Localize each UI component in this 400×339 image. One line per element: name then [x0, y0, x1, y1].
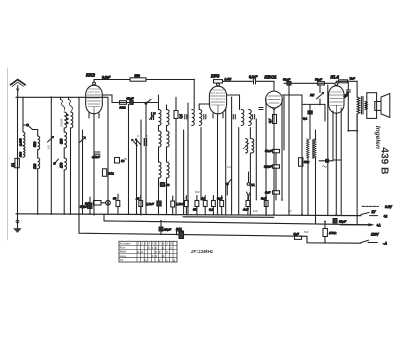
svg-text:8nF: 8nF	[195, 190, 200, 194]
wire	[107, 97, 109, 214]
svg-text:600: 600	[60, 138, 64, 144]
bandfilter BF3	[241, 110, 251, 126]
svg-text:RG1: RG1	[120, 106, 127, 110]
wire	[275, 153, 277, 165]
wire	[315, 158, 317, 224]
wire	[347, 81, 349, 90]
resistor R13	[115, 158, 125, 164]
wire	[200, 128, 202, 201]
wire mid segment	[183, 216, 274, 219]
wire	[255, 119, 257, 200]
svg-text:RA1: RA1	[108, 172, 114, 176]
wire	[275, 168, 277, 191]
table band switch	[119, 241, 177, 262]
svg-text:500: 500	[33, 141, 37, 147]
svg-text:500: 500	[19, 152, 23, 157]
wire	[103, 214, 105, 221]
wire anode row	[112, 102, 157, 104]
svg-text:50µF: 50µF	[127, 97, 134, 101]
capacitor C23	[261, 196, 268, 216]
wire	[187, 103, 189, 215]
bus B1	[16, 214, 361, 216]
wire	[249, 153, 251, 215]
bandfilter BF1c	[158, 162, 169, 178]
svg-text:5nF: 5nF	[304, 230, 309, 234]
svg-text:x: x	[166, 258, 168, 262]
wire AF line	[284, 82, 334, 84]
svg-text:TA: TA	[120, 258, 123, 262]
wire grid KF3	[199, 104, 210, 110]
svg-text:6-2V: 6-2V	[385, 205, 393, 209]
svg-text:170: 170	[60, 162, 64, 168]
svg-text:7nF: 7nF	[350, 77, 355, 81]
resistor R8	[299, 158, 310, 167]
svg-text:x: x	[159, 258, 161, 262]
wire	[70, 128, 72, 215]
resistor RA1	[176, 227, 184, 235]
svg-text:o: o	[162, 254, 164, 258]
wire	[327, 85, 329, 215]
wire	[238, 128, 240, 215]
svg-text:o: o	[145, 258, 147, 262]
switch S4	[361, 210, 387, 218]
KF3 pin stubs	[213, 113, 223, 118]
svg-text:0,1µF: 0,1µF	[80, 205, 88, 209]
choke L5	[307, 139, 317, 159]
tube KL4	[329, 83, 344, 114]
switch S2	[54, 159, 59, 165]
svg-text:0,1: 0,1	[209, 208, 214, 212]
svg-text:ZF=128kHz: ZF=128kHz	[190, 249, 214, 254]
KK2 pin stubs	[89, 113, 99, 119]
tube KF3	[209, 83, 226, 114]
wire	[166, 178, 168, 214]
wire	[223, 80, 253, 82]
antenna coil L1	[64, 112, 73, 128]
wire	[136, 139, 138, 214]
wire	[225, 108, 227, 215]
capacitor C28	[294, 232, 302, 239]
wire	[273, 108, 275, 215]
wire	[288, 86, 290, 215]
misc labels	[47, 118, 309, 234]
wire	[309, 114, 311, 139]
capacitor C5	[204, 115, 206, 120]
bus B3	[79, 214, 361, 243]
svg-text:0,5: 0,5	[288, 209, 292, 213]
svg-text:KK2: KK2	[86, 73, 95, 78]
trimmer arrow C1	[48, 136, 54, 142]
svg-text:4nF: 4nF	[243, 208, 248, 212]
wire	[78, 97, 80, 214]
svg-text:Lang: Lang	[120, 254, 126, 258]
svg-text:0,050: 0,050	[19, 138, 23, 146]
wire	[158, 147, 160, 162]
bus B2	[104, 221, 372, 225]
capacitor 50uF blob	[127, 97, 134, 105]
svg-text:50µF: 50µF	[283, 78, 290, 82]
svg-text:0,1µF: 0,1µF	[264, 165, 272, 169]
wire	[265, 99, 267, 215]
svg-text:0,0250: 0,0250	[60, 118, 64, 127]
svg-text:x: x	[155, 254, 157, 258]
svg-text:0,1: 0,1	[179, 114, 183, 119]
antenna	[11, 80, 26, 98]
wire	[283, 95, 285, 150]
svg-text:x: x	[148, 246, 150, 250]
wire	[37, 130, 39, 137]
bandfilter BF1b	[158, 131, 169, 147]
wire	[324, 237, 326, 243]
resistor RA2 and dial lamp	[85, 200, 110, 205]
wire	[145, 103, 147, 214]
capacitor C4	[185, 115, 187, 120]
wire	[37, 150, 39, 158]
coil 120	[33, 158, 40, 169]
svg-text:120: 120	[33, 163, 37, 169]
wire	[158, 95, 160, 110]
wire antenna lead down	[17, 97, 19, 214]
bandfilter BF1a	[158, 110, 169, 126]
svg-text:o: o	[137, 250, 139, 254]
capacitor C20	[209, 201, 215, 212]
svg-text:Mittel: Mittel	[120, 250, 127, 254]
page scan edge	[7, 68, 9, 240]
svg-text:4,5nF: 4,5nF	[92, 155, 100, 159]
capacitor C15	[113, 194, 120, 215]
wire	[256, 81, 275, 91]
svg-text:50: 50	[124, 157, 127, 161]
wire	[175, 97, 177, 110]
svg-text:x: x	[159, 250, 161, 254]
wire	[347, 92, 349, 131]
svg-text:500: 500	[135, 74, 141, 78]
resistor R4 above KF3	[214, 77, 232, 83]
svg-text:KBC1: KBC1	[265, 75, 278, 80]
wire	[319, 99, 321, 105]
capacitor C16	[135, 196, 143, 215]
svg-text:0,7: 0,7	[268, 118, 272, 123]
svg-text:Kurz: Kurz	[120, 246, 126, 250]
svg-text:Ingelen: Ingelen	[374, 126, 381, 149]
capacitor C24	[265, 149, 280, 153]
capacitor C7	[233, 115, 235, 120]
wire	[301, 103, 303, 215]
svg-text:TA: TA	[251, 183, 255, 187]
tube KK2	[86, 82, 103, 114]
capacitor C21	[217, 197, 224, 207]
wire	[183, 130, 185, 215]
terminal row 1	[362, 205, 393, 209]
svg-text:Kontakte: Kontakte	[120, 242, 131, 246]
wire	[166, 105, 168, 110]
resistor RG1	[120, 101, 127, 110]
capacitor C29	[179, 232, 184, 239]
wire	[356, 114, 358, 225]
svg-text:–A: –A	[382, 241, 387, 245]
wire	[63, 148, 65, 158]
svg-text:CA: CA	[227, 165, 231, 169]
wire	[63, 128, 65, 132]
wire	[128, 104, 130, 214]
svg-text:50k: 50k	[304, 160, 309, 164]
wire	[158, 178, 160, 214]
svg-text:5nF: 5nF	[261, 197, 266, 201]
wire	[175, 119, 177, 215]
coil lead squiggle	[69, 100, 73, 112]
wire	[281, 100, 283, 200]
coil L4	[243, 139, 254, 153]
svg-text:5nF: 5nF	[265, 191, 270, 195]
svg-text:1,1M: 1,1M	[225, 77, 232, 81]
svg-text:+2: +2	[384, 214, 388, 218]
capacitor C8	[253, 115, 255, 120]
svg-text:o: o	[173, 258, 175, 262]
wire	[348, 130, 357, 132]
svg-text:o: o	[170, 246, 172, 250]
switch S6	[226, 179, 232, 195]
svg-text:50nF: 50nF	[315, 78, 322, 82]
svg-text:1,5nF: 1,5nF	[146, 202, 154, 206]
ground	[14, 215, 21, 233]
resistor R9	[323, 229, 337, 237]
wire	[68, 97, 70, 99]
svg-text:50: 50	[166, 183, 170, 187]
capacitor C26	[265, 191, 280, 195]
svg-text:50: 50	[193, 208, 197, 212]
svg-text:1A: 1A	[11, 163, 15, 167]
wire	[319, 85, 321, 93]
wire	[50, 97, 52, 214]
wire	[82, 130, 84, 214]
wire	[356, 114, 358, 131]
wire	[319, 160, 333, 162]
bandfilter BF2	[192, 110, 202, 126]
wire	[324, 221, 326, 229]
capacitor C32	[160, 183, 169, 188]
wire KL4 cathode	[335, 113, 337, 215]
wire KL4 left pin	[333, 111, 341, 160]
pickup TA	[247, 172, 255, 200]
capacitor C13 20uF	[159, 221, 171, 235]
wire cap stems	[186, 196, 221, 215]
svg-text:120V: 120V	[371, 233, 379, 237]
svg-text:1M: 1M	[310, 93, 315, 97]
wire	[158, 126, 160, 132]
wire	[336, 81, 357, 82]
svg-text:x: x	[166, 250, 168, 254]
switch S5	[361, 240, 387, 245]
svg-text:KL4: KL4	[331, 75, 340, 80]
svg-text:0,1µF: 0,1µF	[249, 75, 258, 79]
wire	[166, 126, 168, 132]
svg-text:20µF: 20µF	[163, 228, 171, 232]
trimmer C3	[132, 139, 147, 146]
svg-text:x: x	[162, 246, 164, 250]
capacitor C25	[264, 165, 280, 169]
capacitor C18	[193, 201, 199, 212]
speaker LS	[367, 93, 390, 119]
wire	[340, 108, 342, 215]
capacitor C10	[283, 78, 291, 86]
resistor 500 input	[33, 136, 40, 150]
coil L3 170	[60, 158, 67, 170]
svg-text:o: o	[141, 250, 143, 254]
resistor R7 above KL4	[339, 77, 355, 83]
wire	[23, 124, 28, 126]
wire KF3 cathode	[217, 114, 219, 215]
resistor R3	[174, 111, 183, 119]
wire	[37, 169, 39, 215]
svg-text:170Ω: 170Ω	[329, 231, 337, 235]
wire	[315, 130, 317, 139]
wire	[249, 128, 251, 139]
capacitor C9	[259, 108, 263, 110]
svg-text:1,5nF: 1,5nF	[176, 202, 184, 206]
resistor R10	[171, 196, 175, 215]
potentiometer P1	[310, 92, 324, 99]
terminal row 3	[340, 224, 381, 228]
resistor R5	[268, 115, 277, 124]
svg-text:2k: 2k	[135, 197, 140, 201]
wire grid cap to resistor	[94, 80, 130, 83]
svg-text:+A: +A	[377, 224, 381, 228]
svg-text:50: 50	[113, 197, 117, 201]
resistor R2 500 horizontal	[130, 74, 146, 81]
wire	[60, 97, 62, 99]
wire	[63, 170, 65, 215]
wire	[22, 97, 24, 132]
capacitor C22	[243, 196, 250, 216]
wire	[146, 80, 194, 110]
svg-text:KF3: KF3	[211, 74, 220, 79]
switch S3	[145, 99, 151, 104]
resistor R1 1A	[11, 158, 19, 167]
svg-text:0,1: 0,1	[303, 117, 308, 121]
svg-text:x: x	[152, 254, 154, 258]
capacitor C6	[249, 75, 258, 84]
svg-text:5nF: 5nF	[294, 232, 299, 236]
wire	[140, 120, 142, 215]
wire	[157, 102, 159, 104]
svg-text:439 B: 439 B	[379, 147, 390, 174]
svg-text:6,0: 6,0	[47, 145, 51, 149]
wire	[324, 104, 326, 121]
resistor R11	[19, 132, 25, 146]
coil L2 600	[60, 132, 67, 148]
tube KBC1	[266, 91, 283, 110]
capacitor C34 bead	[323, 159, 329, 167]
svg-text:RA1: RA1	[176, 227, 182, 231]
wire	[356, 81, 358, 97]
svg-text:50nF: 50nF	[265, 149, 272, 153]
svg-text:0,1µF: 0,1µF	[102, 76, 111, 80]
svg-text:x: x	[152, 246, 154, 250]
wire KK2 anode	[102, 95, 112, 103]
capacitor row: C14	[80, 197, 92, 215]
capacitor C12	[343, 90, 351, 99]
wire	[275, 194, 277, 200]
trimmer C30	[80, 137, 86, 143]
wire	[307, 158, 309, 215]
wire	[302, 103, 325, 105]
svg-text:1nF: 1nF	[253, 209, 258, 213]
capacitor C11	[315, 78, 325, 86]
capacitor C33	[146, 201, 161, 206]
output transformer T1	[357, 97, 367, 115]
resistor RA1	[103, 169, 115, 177]
wire KK2 cathode	[93, 114, 95, 215]
wire KBC1 top right	[282, 95, 302, 103]
wire	[166, 147, 168, 162]
switch S1	[26, 124, 37, 130]
resistor R12	[19, 146, 25, 157]
capacitor C19	[201, 197, 207, 207]
resistor R6	[303, 111, 312, 121]
wire top-left horizontal bus	[16, 96, 108, 98]
trimmer C2	[150, 113, 156, 120]
wire KF3 anode	[227, 95, 240, 110]
svg-text:50µF: 50µF	[339, 220, 346, 224]
wire	[309, 104, 311, 110]
svg-text:1,5: 1,5	[183, 196, 187, 200]
capacitor C17	[176, 201, 188, 207]
capacitor C31	[92, 152, 100, 159]
coil lead squiggle	[61, 100, 65, 111]
wire	[231, 97, 233, 215]
capacitor C27	[333, 219, 346, 224]
